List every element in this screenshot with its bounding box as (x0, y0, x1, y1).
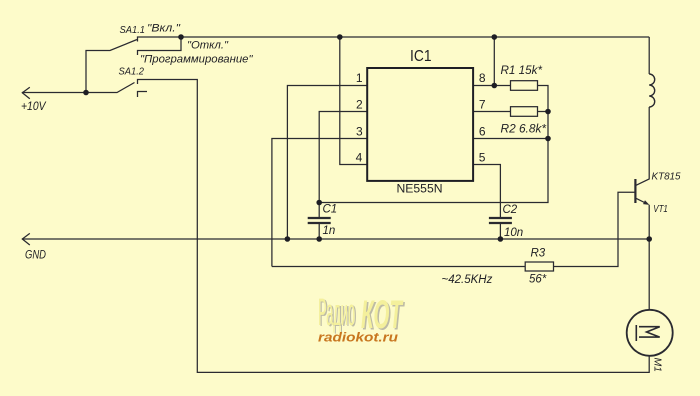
svg-text:"Вкл.": "Вкл." (147, 23, 181, 35)
svg-text:radiokot.ru: radiokot.ru (318, 330, 398, 345)
svg-text:7: 7 (479, 97, 486, 111)
svg-text:+10V: +10V (21, 101, 47, 113)
svg-text:Радио: Радио (318, 292, 355, 334)
svg-text:R1 15k*: R1 15k* (501, 65, 543, 77)
svg-text:2: 2 (356, 97, 363, 111)
svg-text:C2: C2 (503, 204, 518, 216)
svg-text:C1: C1 (323, 204, 338, 216)
svg-text:KT815: KT815 (652, 171, 681, 183)
svg-text:1: 1 (356, 71, 363, 85)
svg-text:"Программирование": "Программирование" (140, 54, 254, 66)
svg-text:SA1.2: SA1.2 (119, 67, 145, 78)
svg-text:6: 6 (479, 124, 486, 138)
svg-text:SA1.1: SA1.1 (120, 25, 146, 36)
svg-text:NE555N: NE555N (397, 182, 443, 196)
svg-text:1n: 1n (323, 225, 336, 237)
svg-text:3: 3 (356, 124, 363, 138)
svg-text:10n: 10n (504, 227, 523, 239)
svg-text:8: 8 (479, 71, 486, 85)
svg-text:GND: GND (25, 250, 46, 262)
svg-text:M1: M1 (652, 358, 664, 373)
svg-text:VT1: VT1 (653, 203, 668, 215)
svg-text:R2 6.8k*: R2 6.8k* (501, 124, 547, 136)
svg-text:R3: R3 (531, 248, 546, 260)
svg-text:IC1: IC1 (410, 48, 432, 65)
svg-text:4: 4 (356, 150, 363, 164)
svg-text:5: 5 (479, 150, 486, 164)
svg-text:~42.5KHz: ~42.5KHz (442, 274, 493, 286)
svg-text:"Откл.": "Откл." (187, 40, 229, 52)
svg-text:56*: 56* (529, 274, 547, 286)
